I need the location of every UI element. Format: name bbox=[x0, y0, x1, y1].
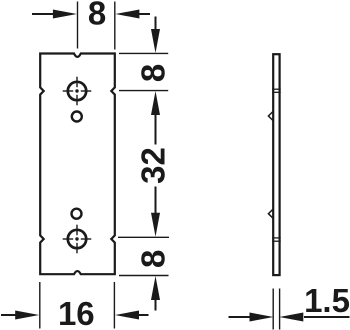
hole H1 center dot bbox=[75, 89, 78, 92]
dim 1.5: right arrow bbox=[279, 313, 349, 322]
svg-text:16: 16 bbox=[58, 295, 95, 330]
dim top 8: left arrow bbox=[32, 10, 77, 19]
hole H2 center dot bbox=[75, 237, 78, 240]
svg-text:8: 8 bbox=[88, 0, 106, 32]
hole H2 center cross bbox=[63, 225, 92, 254]
right chain: up arrow below bottom line bbox=[151, 276, 160, 311]
side view: lower hole edge lines bbox=[272, 238, 281, 241]
side view: lower edge notch triangle bbox=[268, 209, 273, 219]
right chain: down arrow above top line bbox=[151, 17, 160, 54]
dim bottom 16: right arrow bbox=[115, 311, 149, 320]
dim 1.5: left arrow bbox=[229, 313, 274, 322]
plate outline (front view) with edge notches bbox=[40, 54, 115, 275]
dim bottom 16: right extension line bbox=[113, 282, 115, 329]
right chain: extension line at lower hole bbox=[118, 236, 169, 238]
dim 1.5: left extension line bbox=[272, 289, 274, 330]
hole H1 center cross bbox=[63, 77, 92, 106]
svg-text:8: 8 bbox=[134, 64, 171, 82]
svg-text:1.5: 1.5 bbox=[304, 282, 350, 319]
dim top 8: extension line right edge bbox=[114, 2, 116, 50]
dim bottom 16: left arrow bbox=[1, 311, 39, 320]
svg-text:8: 8 bbox=[134, 250, 171, 268]
hole H2 circle (lower, with center mark) bbox=[68, 230, 86, 248]
side view profile outline bbox=[273, 54, 279, 275]
hole H1 circle (upper, with center mark) bbox=[68, 82, 86, 100]
svg-text:32: 32 bbox=[134, 147, 171, 184]
small hole S2 (above H2) bbox=[72, 209, 82, 219]
dim top 8: right arrow bbox=[115, 10, 150, 19]
dim 1.5: right extension line bbox=[279, 289, 281, 330]
side view: upper hole edge lines bbox=[272, 89, 281, 92]
side view: upper edge notch triangle bbox=[268, 111, 273, 121]
dim right 32: down arrow bbox=[151, 187, 160, 237]
right chain: extension line at plate top bbox=[119, 52, 168, 54]
right chain: extension line at plate bottom bbox=[119, 275, 169, 277]
small hole S1 (below H1) bbox=[72, 112, 82, 122]
dim bottom 16: left extension line bbox=[39, 282, 41, 329]
right chain: extension line at upper hole bbox=[119, 90, 168, 92]
dim top 8: extension line centerline bbox=[77, 2, 79, 49]
dim right 32: up arrow bbox=[151, 91, 160, 145]
